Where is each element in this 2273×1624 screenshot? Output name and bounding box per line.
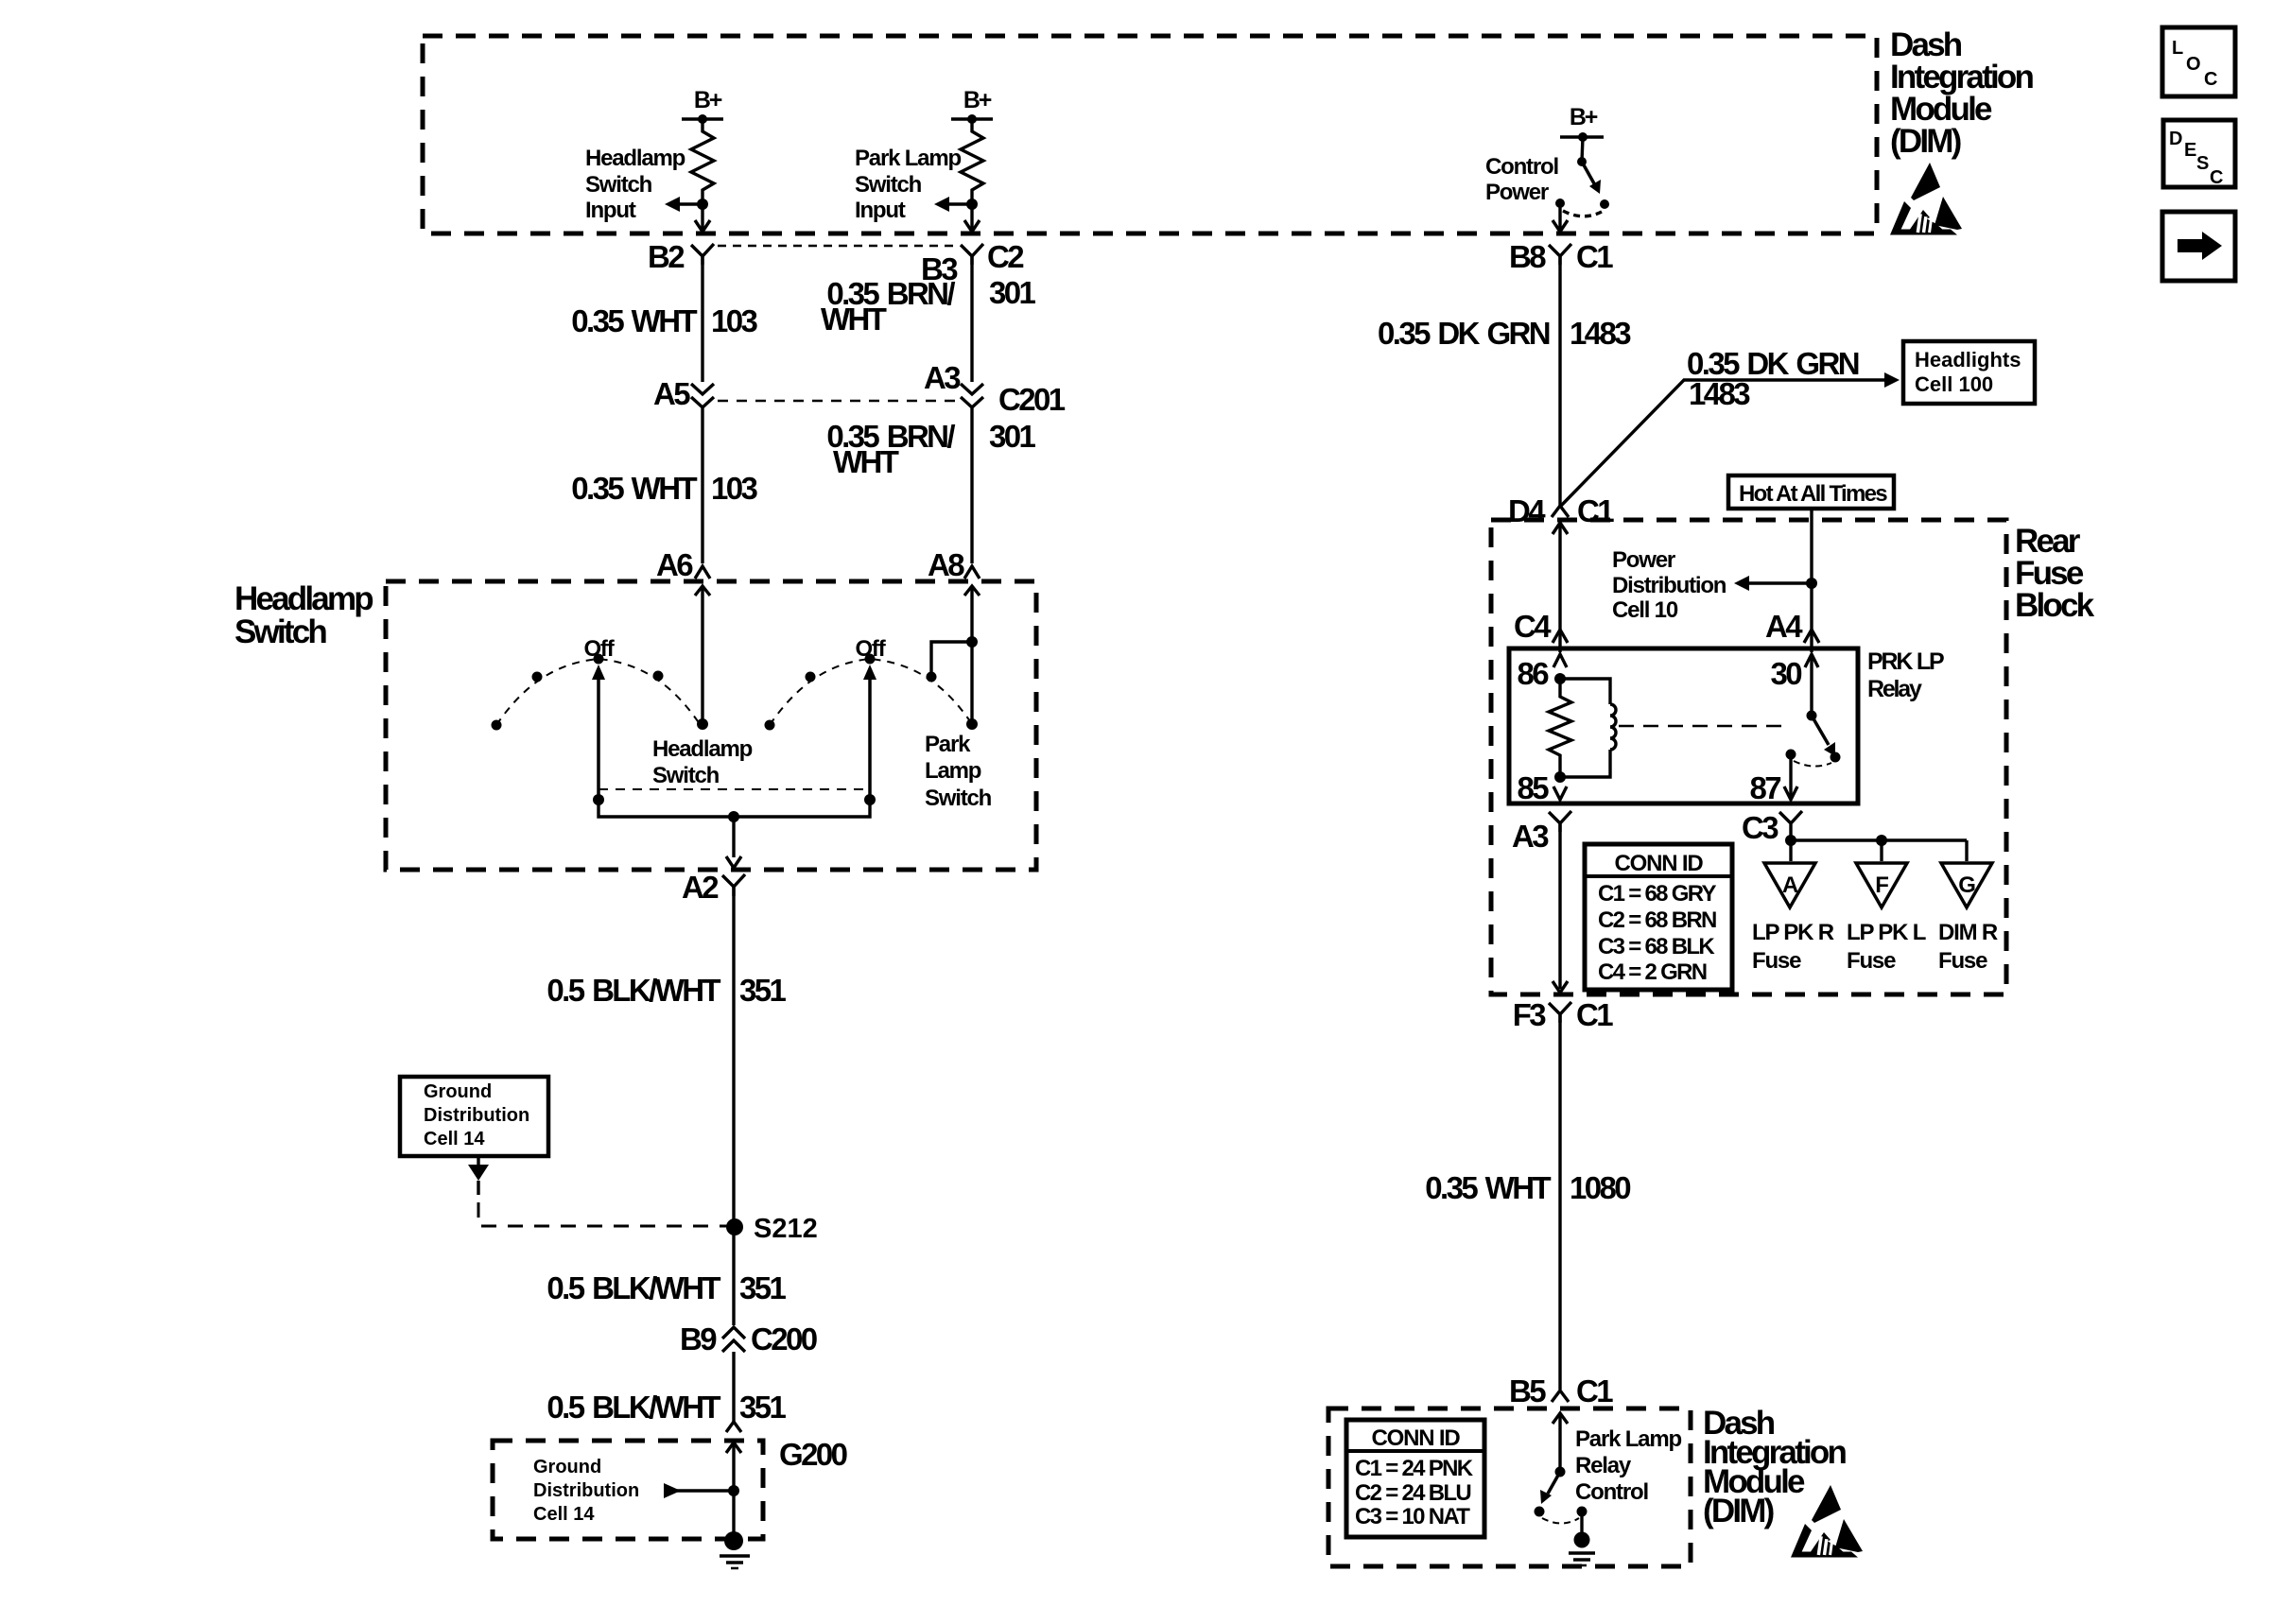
svg-text:0.35 DK GRN: 0.35 DK GRN: [1378, 316, 1550, 351]
svg-text:B5: B5: [1509, 1373, 1546, 1408]
svg-text:D4: D4: [1508, 493, 1546, 528]
svg-text:Input: Input: [855, 198, 906, 223]
connector C201 pin A5: [691, 384, 714, 407]
pin 85: [1554, 771, 1566, 783]
svg-text:Distribution: Distribution: [424, 1105, 529, 1126]
wire 0.35 BRN/WHT 301 (upper): [970, 256, 973, 382]
svg-text:A4: A4: [1765, 609, 1803, 644]
wire dashed mechanical link between switch poles: [599, 788, 870, 790]
svg-text:Switch: Switch: [234, 613, 326, 650]
svg-text:87: 87: [1749, 770, 1780, 805]
svg-text:F3: F3: [1513, 997, 1547, 1032]
wire A6 inside switch: [701, 586, 703, 724]
svg-text:C2: C2: [987, 239, 1024, 274]
svg-text:86: 86: [1517, 656, 1549, 691]
svg-text:A5: A5: [653, 376, 690, 411]
fuse A LP PK R: [1764, 863, 1815, 907]
node headlamp switch input junction: [697, 199, 708, 210]
svg-text:Park Lamp: Park Lamp: [1575, 1426, 1681, 1452]
svg-text:Control: Control: [1485, 154, 1558, 180]
icon DESC: [2163, 120, 2235, 187]
Rear Fuse Block enclosure (dashed box): [1491, 520, 2006, 994]
svg-text:Input: Input: [585, 198, 636, 223]
pin 87: [1789, 754, 1792, 800]
SECTION: rear fuse block: [1425, 475, 2094, 1390]
svg-text:Cell 14: Cell 14: [533, 1504, 595, 1525]
svg-text:B2: B2: [648, 239, 685, 274]
svg-text:C3 = 10 NAT: C3 = 10 NAT: [1355, 1504, 1470, 1529]
wire 0.35 BRN/WHT 301 (lower): [970, 407, 973, 563]
svg-text:A3: A3: [1512, 819, 1549, 854]
SECTION: top DIM module: [423, 26, 2033, 235]
wire 0.35 WHT 103 (lower): [701, 407, 703, 563]
headlamp switch wiper arm: [597, 677, 600, 800]
wire dashed connector link B2-C2: [718, 245, 957, 248]
connector A4 (relay feed): [1804, 630, 1819, 643]
svg-text:G: G: [1958, 872, 1975, 898]
svg-text:351: 351: [739, 1390, 787, 1425]
resistor headlamp switch input pull-up: [691, 119, 714, 230]
connector C1 pin B8 (DIM output): [1549, 244, 1571, 265]
svg-text:D: D: [2169, 129, 2182, 149]
park lamp switch rotary contact arc: [770, 659, 972, 725]
svg-text:Power: Power: [1612, 547, 1675, 573]
svg-text:A3: A3: [924, 360, 961, 395]
wire 0.35 DK GRN 1483: [1558, 256, 1561, 509]
arrow from ground distribution reference: [477, 1156, 479, 1165]
svg-text:0.5 BLK/WHT: 0.5 BLK/WHT: [547, 1270, 720, 1305]
icon forward arrow: [2162, 212, 2235, 281]
node power distribution junction: [1806, 578, 1817, 589]
svg-text:Lamp: Lamp: [925, 758, 981, 784]
svg-text:Cell 10: Cell 10: [1612, 597, 1678, 623]
svg-text:C3: C3: [1742, 810, 1778, 845]
svg-text:B+: B+: [963, 87, 992, 113]
arrow to Power Distribution Cell 10: [1745, 581, 1812, 584]
svg-text:103: 103: [711, 471, 758, 506]
wire park lamp relay control into DIM (solid arrow up): [1558, 1413, 1561, 1472]
SECTION: bottom dim: [1328, 1373, 1863, 1566]
svg-text:B+: B+: [1570, 104, 1598, 130]
svg-text:0.35 WHT: 0.35 WHT: [1425, 1170, 1551, 1205]
wire exits rear fuse block (open arrow): [1553, 981, 1568, 993]
svg-text:B9: B9: [680, 1322, 717, 1356]
svg-text:Switch: Switch: [652, 763, 720, 788]
svg-text:Fuse: Fuse: [1938, 948, 1987, 974]
svg-text:Off: Off: [855, 636, 886, 662]
svg-text:C1 = 24 PNK: C1 = 24 PNK: [1355, 1456, 1474, 1481]
icon LOC: [2162, 27, 2235, 96]
svg-text:L: L: [2172, 38, 2183, 59]
svg-text:Fuse: Fuse: [1847, 948, 1896, 974]
svg-text:C4: C4: [1514, 609, 1552, 644]
svg-text:Headlamp: Headlamp: [234, 580, 373, 617]
svg-text:Park: Park: [925, 732, 971, 757]
wire dashed relay actuation link: [1619, 725, 1785, 728]
connector C1 pin B5 (into DIM): [1552, 1391, 1569, 1402]
svg-text:Switch: Switch: [925, 786, 992, 811]
fuse F LP PK L: [1856, 863, 1907, 907]
svg-text:O: O: [2186, 54, 2201, 75]
svg-text:0.35 WHT: 0.35 WHT: [571, 471, 697, 506]
reference box Headlights Cell 100: [1903, 341, 2035, 404]
svg-text:A8: A8: [928, 547, 964, 582]
relay armature switch: [1810, 654, 1813, 716]
SECTION: ground path: [400, 870, 847, 1568]
svg-text:301: 301: [989, 275, 1036, 310]
table CONN ID (DIM): [1346, 1420, 1484, 1537]
connector B2 (DIM C1): [691, 244, 714, 265]
svg-text:Headlamp: Headlamp: [585, 146, 685, 171]
svg-text:Ground: Ground: [533, 1457, 601, 1477]
wire arrow to Park Lamp Switch Input label: [945, 202, 972, 206]
SECTION: left column: [571, 239, 1065, 582]
svg-text:C: C: [2204, 69, 2217, 90]
svg-text:B8: B8: [1509, 239, 1546, 274]
svg-text:C3 = 68 BLK: C3 = 68 BLK: [1598, 934, 1715, 959]
wire dashed connector link A5-A3: [718, 400, 957, 403]
svg-text:301: 301: [989, 419, 1036, 454]
table CONN ID (rear fuse block): [1585, 844, 1732, 990]
ESD sensitivity symbol (top): [1890, 163, 1962, 235]
connector A2 (headlamp switch): [722, 874, 745, 896]
wire control power exits module (open arrow): [1558, 203, 1561, 230]
svg-text:(DIM): (DIM): [1890, 123, 1961, 160]
svg-text:Block: Block: [2015, 587, 2095, 624]
connector C201 pin A3: [961, 384, 983, 407]
arrow from Ground Distribution Cell 14 reference (lower): [677, 1489, 734, 1492]
svg-text:(DIM): (DIM): [1703, 1493, 1774, 1529]
wire 0.5 BLK/WHT 351 (C200 to G200): [732, 1352, 735, 1422]
svg-text:A2: A2: [682, 870, 719, 905]
pin 86: [1553, 654, 1567, 667]
svg-text:Distribution: Distribution: [533, 1480, 639, 1501]
reference box Ground Distribution Cell 14 (upper): [400, 1077, 548, 1156]
svg-text:C200: C200: [751, 1322, 817, 1356]
svg-text:Headlights: Headlights: [1915, 348, 2021, 371]
connector C200 pin B9: [722, 1327, 745, 1352]
wire 0.35 WHT 1080: [1558, 1014, 1561, 1390]
wire hot feed to relay pin 30: [1810, 509, 1813, 652]
svg-text:Off: Off: [583, 636, 615, 662]
wire into ground block (open arrow up): [726, 1443, 741, 1453]
ESD sensitivity symbol (bottom): [1791, 1485, 1863, 1558]
connector C4 (relay coil feed): [1553, 630, 1568, 643]
node park lamp switch input junction: [966, 199, 978, 210]
connector A6 into headlamp switch: [695, 566, 710, 579]
svg-text:Distribution: Distribution: [1612, 573, 1726, 598]
svg-text:C1 = 68 GRY: C1 = 68 GRY: [1598, 881, 1717, 907]
svg-text:S: S: [2196, 153, 2209, 174]
svg-text:351: 351: [739, 1270, 787, 1305]
SECTION: corner icons: [2162, 27, 2235, 281]
node fuse bus junction: [1785, 835, 1796, 846]
svg-text:G200: G200: [779, 1437, 847, 1472]
wire park switch branch: [931, 642, 972, 673]
Dash Integration Module (DIM) bottom enclosure (dashed box): [1328, 1408, 1691, 1566]
wire dashed reference link to S212: [478, 1202, 728, 1226]
svg-text:Cell 100: Cell 100: [1915, 372, 1993, 396]
ground (internal DIM): [1580, 1512, 1583, 1533]
node S212 splice: [726, 1218, 743, 1235]
connector into G200: [726, 1422, 741, 1432]
svg-text:1080: 1080: [1570, 1170, 1630, 1205]
resistor park lamp switch input pull-up: [961, 119, 983, 230]
svg-text:351: 351: [739, 973, 787, 1008]
fuse G DIM R: [1941, 863, 1992, 907]
svg-text:0.35 WHT: 0.35 WHT: [571, 303, 697, 338]
inductor relay coil: [1560, 679, 1616, 777]
svg-text:S212: S212: [754, 1214, 818, 1244]
svg-text:0.5 BLK/WHT: 0.5 BLK/WHT: [547, 1390, 720, 1425]
Dash Integration Module (DIM) top enclosure (dashed box): [423, 36, 1877, 233]
svg-text:C4 = 2 GRN: C4 = 2 GRN: [1598, 959, 1707, 985]
svg-text:1483: 1483: [1689, 376, 1750, 411]
svg-text:Cell 14: Cell 14: [424, 1129, 485, 1149]
wire A2 exits switch (open arrow): [726, 856, 741, 868]
svg-text:WHT: WHT: [833, 444, 899, 479]
headlamp switch rotary contact arc: [496, 659, 700, 725]
svg-text:Fuse: Fuse: [1752, 948, 1801, 974]
svg-text:C1: C1: [1576, 1373, 1613, 1408]
wire headlamp input exits module (open arrow): [695, 220, 710, 232]
svg-text:C: C: [2210, 167, 2223, 188]
wire A8 inside switch: [970, 586, 973, 724]
SECTION: headlamp switch box: [234, 580, 1036, 870]
SECTION: right column top: [1378, 239, 2035, 652]
svg-text:E: E: [2184, 140, 2196, 161]
svg-text:85: 85: [1517, 770, 1549, 805]
svg-text:A: A: [1782, 872, 1798, 898]
svg-text:Hot At All Times: Hot At All Times: [1739, 481, 1887, 507]
wire arrow to Headlamp Switch Input label: [675, 202, 703, 206]
svg-text:DIM R: DIM R: [1938, 920, 1998, 945]
svg-text:103: 103: [711, 303, 758, 338]
svg-text:Switch: Switch: [855, 172, 922, 198]
svg-text:CONN ID: CONN ID: [1615, 851, 1704, 876]
wire branch 0.35 DK GRN 1483 to Headlights Cell 100: [1560, 380, 1887, 507]
wire 0.35 WHT 103 (upper): [701, 256, 703, 382]
svg-text:B+: B+: [694, 87, 722, 113]
node ground junction: [728, 1485, 739, 1496]
svg-text:C2 = 24 BLU: C2 = 24 BLU: [1355, 1480, 1470, 1506]
svg-text:LP PK R: LP PK R: [1752, 920, 1834, 945]
node relay contact 87: [1786, 750, 1796, 760]
svg-text:Park Lamp: Park Lamp: [855, 146, 961, 171]
resistor relay coil suppression: [1549, 679, 1571, 777]
svg-text:C1: C1: [1577, 493, 1614, 528]
ground block G200 enclosure (dashed box): [493, 1441, 763, 1539]
svg-text:Power: Power: [1485, 180, 1549, 205]
Headlamp Switch enclosure (dashed box): [386, 581, 1036, 870]
svg-text:WHT: WHT: [821, 302, 887, 337]
svg-text:PRK LP: PRK LP: [1867, 648, 1944, 675]
switch park lamp relay control driver: [1555, 1467, 1566, 1477]
svg-text:CONN ID: CONN ID: [1372, 1425, 1461, 1451]
svg-text:0.5 BLK/WHT: 0.5 BLK/WHT: [547, 973, 720, 1008]
svg-text:F: F: [1875, 872, 1888, 898]
relay PRK LP Relay box: [1509, 648, 1858, 803]
wire common output of switch poles: [599, 800, 870, 817]
wire park lamp input exits module (open arrow): [964, 220, 980, 232]
svg-text:C1: C1: [1576, 239, 1613, 274]
svg-text:Relay: Relay: [1867, 676, 1922, 702]
svg-text:A6: A6: [656, 547, 693, 582]
svg-text:Relay: Relay: [1575, 1453, 1632, 1478]
park lamp switch wiper arm: [868, 677, 872, 800]
connector C3 (fuse bus): [1779, 811, 1802, 838]
svg-text:Ground: Ground: [424, 1081, 492, 1102]
svg-text:C201: C201: [998, 382, 1066, 417]
pin 30: [1805, 654, 1818, 667]
ground G200 symbol: [724, 1531, 743, 1550]
svg-text:Headlamp: Headlamp: [652, 736, 753, 762]
svg-text:LP PK L: LP PK L: [1847, 920, 1926, 945]
svg-text:1483: 1483: [1570, 316, 1631, 351]
svg-text:Switch: Switch: [585, 172, 652, 198]
reference box Hot At All Times: [1728, 475, 1894, 509]
node A8 branch junction: [966, 636, 978, 648]
wire 0.5 BLK/WHT 351 (A2 to S212): [732, 887, 735, 1325]
svg-text:C2 = 68 BRN: C2 = 68 BRN: [1598, 907, 1716, 933]
connector C2 pin B3: [961, 244, 983, 265]
connector C1 pin D4 (into rear fuse block): [1552, 506, 1569, 517]
connector A8 into headlamp switch: [964, 566, 980, 579]
switch control power (internal DIM driver): [1582, 137, 1583, 162]
connector C1 pin F3 (out of rear fuse block): [1549, 1002, 1571, 1023]
svg-text:C1: C1: [1576, 997, 1613, 1032]
svg-text:Control: Control: [1575, 1479, 1648, 1505]
svg-text:30: 30: [1770, 656, 1801, 691]
connector A3 (coil ground out): [1549, 811, 1571, 832]
